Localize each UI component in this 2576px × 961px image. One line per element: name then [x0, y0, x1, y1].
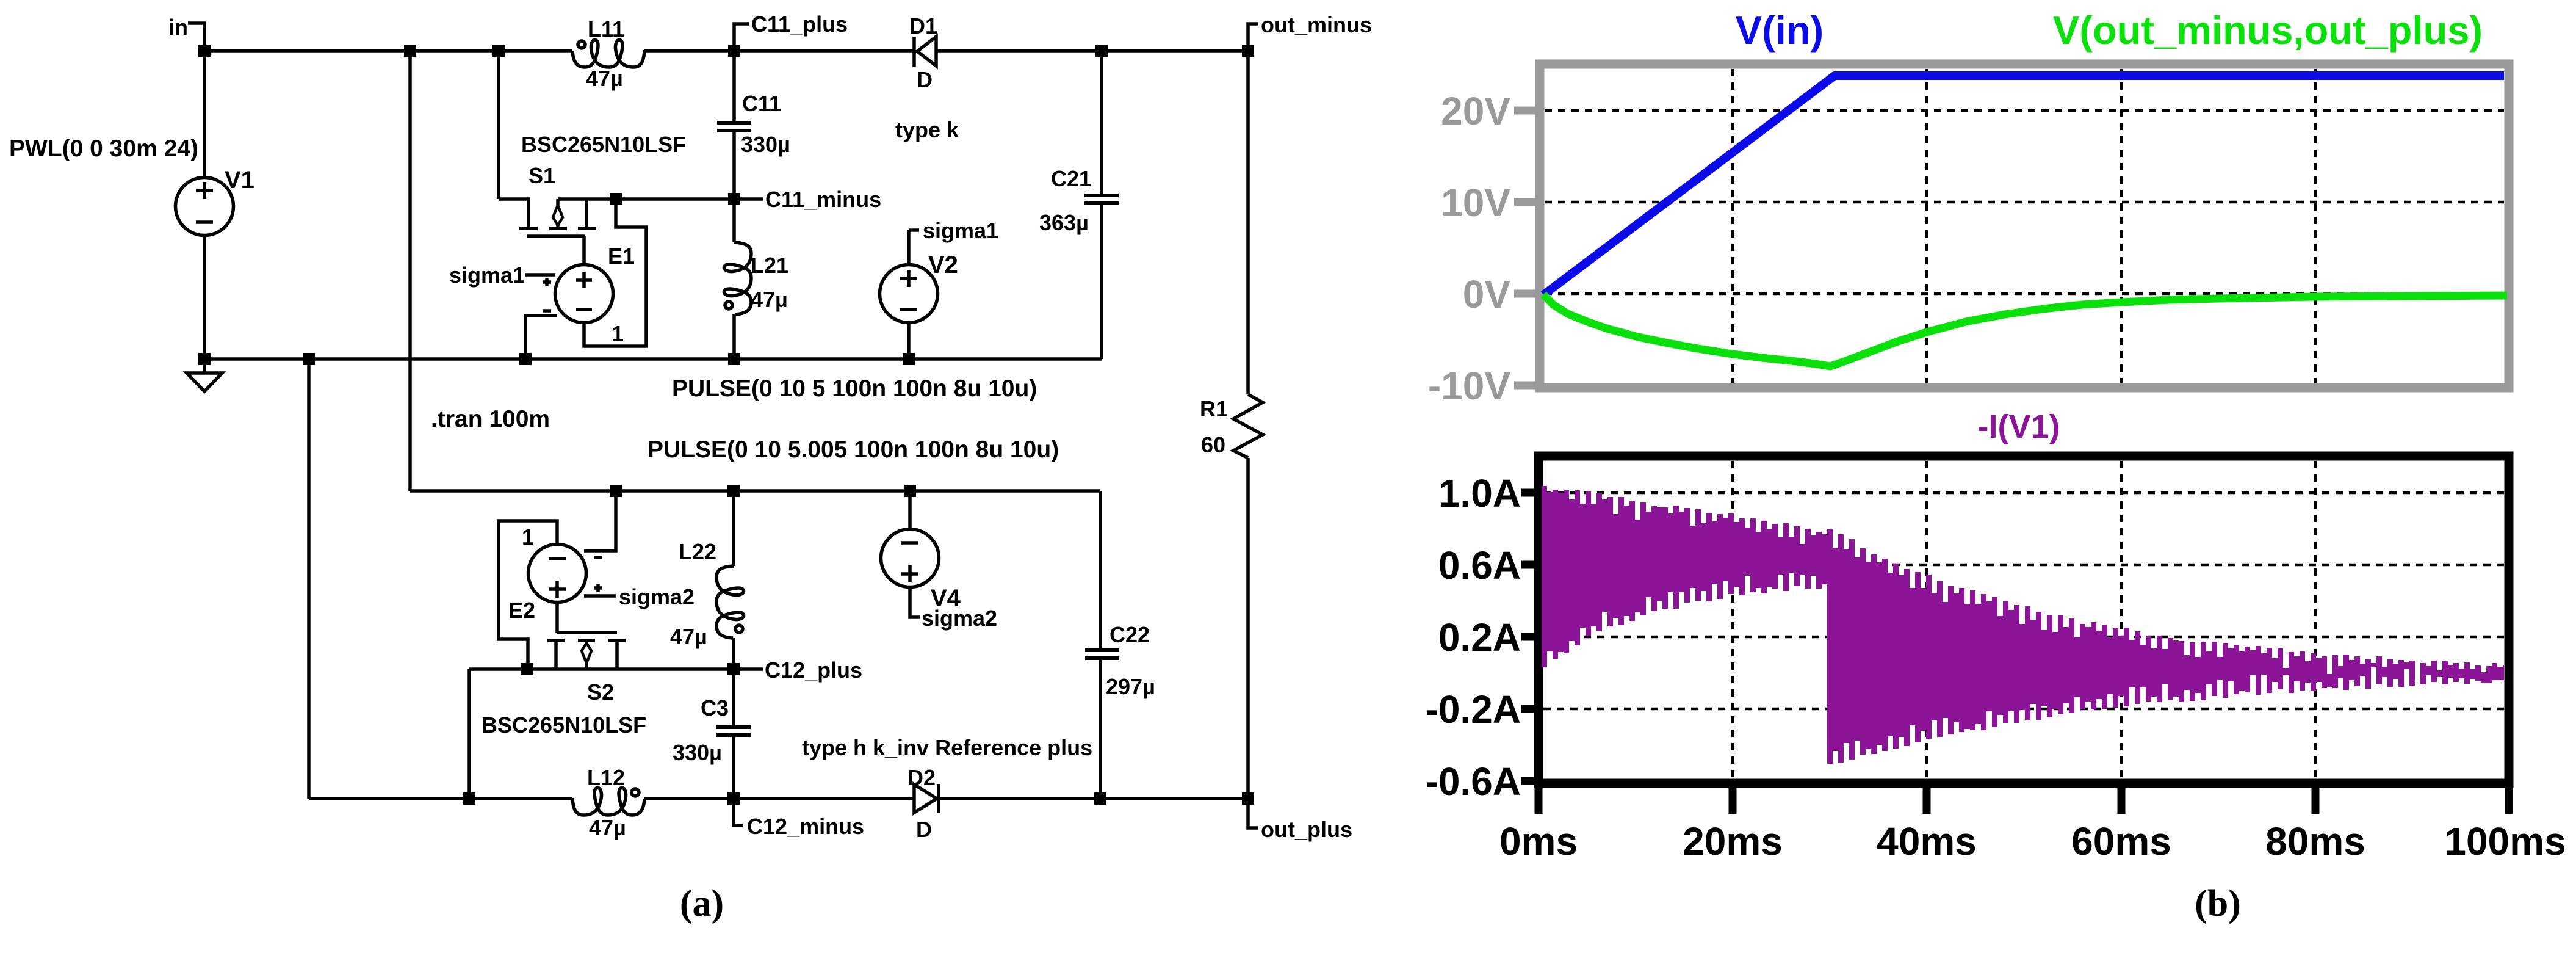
panel2 grid vertical: [1733, 461, 2315, 778]
panel2 y ticks: [1521, 493, 1535, 781]
curve V(out_minus,out_plus) green: [1543, 294, 2507, 366]
plot panel 2 frame: [1539, 456, 2509, 783]
net label C12_minus: [734, 799, 864, 839]
wire L22 bottom: [732, 638, 735, 669]
wire C22 bottom: [1099, 660, 1102, 799]
curve -I(V1) purple comb: [1542, 484, 2504, 764]
inductor L12: [572, 788, 644, 815]
wire bottom rail left: [309, 797, 572, 800]
net label C12_plus: [740, 658, 862, 683]
svg-text:D1: D1: [909, 13, 937, 38]
wire top rail left: [204, 49, 572, 53]
junction C11_plus node: [728, 45, 740, 57]
wire V4 top: [908, 491, 912, 529]
wire top rail mid: [644, 49, 913, 53]
svg-text:V(in): V(in): [1736, 8, 1824, 53]
svg-text:sigma2: sigma2: [619, 584, 695, 609]
wire C3 bottom: [732, 737, 735, 799]
svg-text:47µ: 47µ: [751, 287, 788, 312]
junction lower rail E2: [610, 485, 622, 497]
svg-text:D2: D2: [907, 765, 936, 790]
wire C22 top: [1099, 491, 1102, 648]
voltage source V4: [881, 529, 939, 587]
switch S1: [519, 199, 596, 236]
svg-text:.tran 100m: .tran 100m: [431, 406, 550, 432]
wire lower rail: [410, 489, 1100, 493]
voltage source V1: [176, 178, 234, 236]
junction ground L21: [728, 353, 740, 365]
panel1 grid horizontal: [1545, 111, 2504, 294]
svg-text:V2: V2: [928, 252, 958, 278]
svg-text:BSC265N10LSF: BSC265N10LSF: [482, 713, 646, 738]
inductor L11: [572, 40, 644, 67]
panel2 x labels: [1499, 819, 2566, 863]
panel1 grid vertical: [1733, 69, 2315, 383]
panel1 y labels: [1428, 89, 1511, 408]
svg-text:1: 1: [522, 524, 534, 549]
svg-text:PWL(0 0 30m 24): PWL(0 0 30m 24): [9, 136, 198, 162]
svg-text:1.0A: 1.0A: [1438, 471, 1521, 515]
svg-text:47µ: 47µ: [589, 815, 626, 840]
svg-text:V(out_minus,out_plus): V(out_minus,out_plus): [2053, 8, 2483, 53]
svg-text:sigma1: sigma1: [449, 263, 525, 288]
wire E1 bottom loop: [584, 199, 646, 346]
net label sigma2 V4: [910, 587, 997, 631]
svg-text:C21: C21: [1051, 166, 1091, 191]
wire S1 gate net to C11_minus: [558, 197, 734, 201]
panel2 x ticks: [1539, 788, 2509, 814]
junction out_minus node: [1242, 45, 1254, 57]
svg-text:S2: S2: [587, 680, 614, 705]
net label sigma1 V2: [909, 218, 998, 243]
svg-text:L12: L12: [587, 765, 625, 790]
svg-text:-I(V1): -I(V1): [1978, 408, 2060, 445]
svg-text:C3: C3: [701, 695, 729, 720]
panel2 grid horizontal: [1543, 493, 2504, 709]
svg-text:C11_plus: C11_plus: [751, 12, 848, 37]
svg-text:1: 1: [612, 321, 624, 346]
svg-text:-0.6A: -0.6A: [1426, 760, 1521, 803]
plot panel 1 frame: [1540, 64, 2509, 388]
svg-text:0V: 0V: [1463, 272, 1511, 316]
inductor L21: [724, 242, 751, 314]
junction C12_minus node: [727, 792, 740, 805]
svg-text:-10V: -10V: [1428, 364, 1511, 408]
net label in: [168, 15, 204, 51]
svg-text:100ms: 100ms: [2444, 819, 2566, 863]
capacitor C3: [716, 725, 751, 737]
wire C21 top: [1100, 51, 1103, 194]
svg-text:BSC265N10LSF: BSC265N10LSF: [521, 132, 686, 157]
wire V2 top: [907, 230, 911, 265]
wire C3 top: [732, 669, 735, 725]
junction C11_minus node: [728, 193, 740, 205]
wire L22 top: [732, 491, 735, 566]
wire S1 drain: [499, 51, 529, 227]
junction lower rail L22: [727, 485, 740, 497]
svg-text:S1: S1: [529, 163, 555, 188]
capacitor C21: [1084, 194, 1119, 205]
svg-text:PULSE(0 10 5.005 100n 100n 8u: PULSE(0 10 5.005 100n 100n 8u 10u): [648, 437, 1059, 463]
svg-text:V1: V1: [225, 167, 254, 194]
svg-text:20ms: 20ms: [1683, 819, 1783, 863]
svg-text:C12_minus: C12_minus: [747, 814, 864, 839]
svg-text:L11: L11: [588, 16, 624, 42]
junction C12_plus node: [727, 663, 740, 675]
junction S1 source node: [610, 193, 622, 205]
svg-text:0.2A: 0.2A: [1438, 615, 1521, 659]
svg-text:60ms: 60ms: [2071, 819, 2171, 863]
svg-text:D: D: [916, 817, 932, 842]
svg-text:363µ: 363µ: [1039, 210, 1089, 235]
dependent source E2: [529, 545, 603, 603]
net label out_minus: [1248, 12, 1372, 51]
wire bottom rail mid: [644, 797, 913, 800]
svg-text:out_plus: out_plus: [1261, 817, 1352, 842]
svg-text:47µ: 47µ: [586, 66, 623, 91]
svg-text:-0.2A: -0.2A: [1426, 687, 1521, 731]
wire R1 top: [1246, 51, 1250, 394]
wire E1 top pin: [582, 236, 586, 265]
curve V(in) blue: [1543, 76, 2504, 295]
wire L21 top: [732, 199, 736, 242]
svg-text:L22: L22: [679, 539, 716, 564]
wire E1 ctrl plus: [525, 273, 555, 277]
junction top x672: [404, 45, 416, 57]
capacitor C11: [717, 121, 751, 132]
wire bottom rail right: [939, 797, 1248, 800]
svg-text:C12_plus: C12_plus: [765, 658, 862, 683]
inductor L22: [716, 566, 744, 638]
junction out_plus node: [1242, 792, 1254, 805]
wire top rail right: [937, 49, 1248, 53]
junction ground x506: [303, 353, 315, 365]
wire E1 ctrl minus: [525, 316, 557, 359]
ground: [187, 365, 222, 391]
svg-text:type h k_inv Reference plus: type h k_inv Reference plus: [802, 735, 1092, 760]
wire V2 bottom: [907, 322, 911, 359]
wire C11 top: [732, 51, 736, 121]
resistor R1: [1233, 394, 1263, 458]
svg-text:(a): (a): [680, 883, 724, 924]
svg-text:E2: E2: [508, 598, 535, 623]
wire C11 bottom: [732, 132, 736, 199]
net label C11_plus: [734, 12, 848, 51]
svg-text:type k: type k: [895, 117, 959, 142]
voltage source V2: [880, 265, 938, 323]
svg-text:C22: C22: [1109, 622, 1150, 647]
diode D2: [914, 784, 939, 813]
junction lower rail V4: [904, 485, 916, 497]
svg-text:C11_minus: C11_minus: [765, 187, 881, 212]
wire left drop x506: [307, 359, 311, 799]
svg-text:C11: C11: [742, 91, 781, 116]
wire L21 bottom: [732, 314, 736, 359]
wire S2 drain rail: [469, 669, 734, 799]
wire x672 drop: [408, 51, 412, 491]
junction ground E1ctl: [519, 353, 532, 365]
svg-text:in: in: [168, 15, 188, 40]
svg-text:0.6A: 0.6A: [1438, 543, 1521, 587]
wire E2 top loop: [499, 521, 557, 670]
wire R1 bottom: [1246, 458, 1250, 799]
svg-text:sigma2: sigma2: [922, 606, 997, 631]
svg-text:47µ: 47µ: [670, 624, 707, 649]
svg-text:330µ: 330µ: [673, 740, 722, 765]
junction ground V2: [903, 353, 915, 365]
junction C21 top: [1095, 45, 1108, 57]
panel2 y labels: [1426, 471, 1521, 803]
svg-text:0ms: 0ms: [1499, 819, 1578, 863]
svg-text:60: 60: [1201, 432, 1225, 457]
svg-text:80ms: 80ms: [2265, 819, 2365, 863]
junction bottom rail x769: [463, 792, 475, 805]
wire C21 bottom: [1100, 205, 1103, 359]
wire V1 bottom: [203, 236, 206, 359]
svg-text:E1: E1: [608, 244, 635, 269]
junction in node: [198, 45, 211, 57]
junction ground V1: [198, 353, 211, 365]
junction top x817: [492, 45, 505, 57]
dependent source E1: [543, 265, 613, 323]
wire V1 top: [203, 51, 206, 178]
svg-text:10V: 10V: [1441, 181, 1510, 225]
wire ground rail: [204, 357, 1102, 361]
switch S2: [547, 633, 626, 669]
net label C11_minus: [740, 187, 881, 212]
junction S2 E2 node: [521, 663, 533, 675]
wire E2 bottom pin: [555, 603, 559, 633]
svg-text:20V: 20V: [1441, 89, 1510, 133]
svg-text:D: D: [917, 67, 933, 92]
svg-text:PULSE(0 10 5 100n 100n 8u 10u): PULSE(0 10 5 100n 100n 8u 10u): [672, 375, 1037, 402]
svg-text:sigma1: sigma1: [923, 218, 998, 243]
svg-text:out_minus: out_minus: [1261, 12, 1372, 37]
net label out_plus: [1248, 799, 1352, 842]
svg-text:40ms: 40ms: [1877, 819, 1977, 863]
svg-text:(b): (b): [2195, 883, 2241, 924]
capacitor C22: [1085, 648, 1119, 660]
svg-text:297µ: 297µ: [1106, 674, 1155, 699]
wire E2 ctrl minus: [584, 491, 616, 551]
net label sigma2 E2: [584, 584, 695, 609]
svg-text:330µ: 330µ: [741, 132, 790, 157]
diode D1: [914, 37, 936, 67]
svg-text:L21: L21: [751, 253, 788, 278]
junction C22 bottom: [1094, 792, 1106, 805]
panel1 y ticks: [1514, 111, 1535, 385]
svg-text:R1: R1: [1200, 396, 1228, 421]
